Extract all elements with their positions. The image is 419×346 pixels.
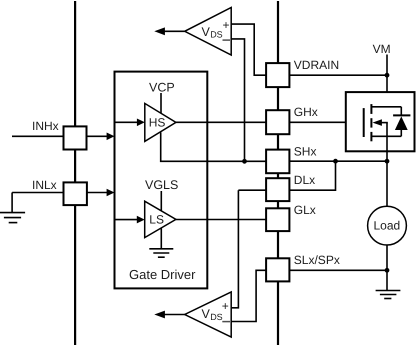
svg-text:HS: HS (149, 115, 166, 129)
svg-text:INLx: INLx (32, 178, 57, 192)
svg-text:Load: Load (374, 219, 401, 233)
svg-text:VM: VM (373, 42, 391, 56)
svg-text:V: V (202, 25, 211, 39)
svg-text:SLx/SPx: SLx/SPx (294, 253, 340, 267)
svg-text:GLx: GLx (294, 203, 316, 217)
svg-text:SHx: SHx (294, 144, 317, 158)
svg-text:+: + (222, 299, 229, 313)
svg-text:Gate Driver: Gate Driver (129, 267, 196, 282)
svg-text:LS: LS (149, 212, 164, 226)
svg-text:V: V (202, 307, 211, 321)
svg-text:DS: DS (210, 30, 223, 40)
svg-text:GHx: GHx (294, 105, 318, 119)
svg-text:INHx: INHx (32, 119, 59, 133)
svg-text:VCP: VCP (149, 80, 175, 94)
svg-text:VGLS: VGLS (145, 178, 178, 192)
svg-text:+: + (223, 18, 230, 32)
svg-text:VDRAIN: VDRAIN (294, 58, 339, 72)
svg-text:DLx: DLx (294, 173, 315, 187)
svg-text:DS: DS (210, 312, 223, 322)
